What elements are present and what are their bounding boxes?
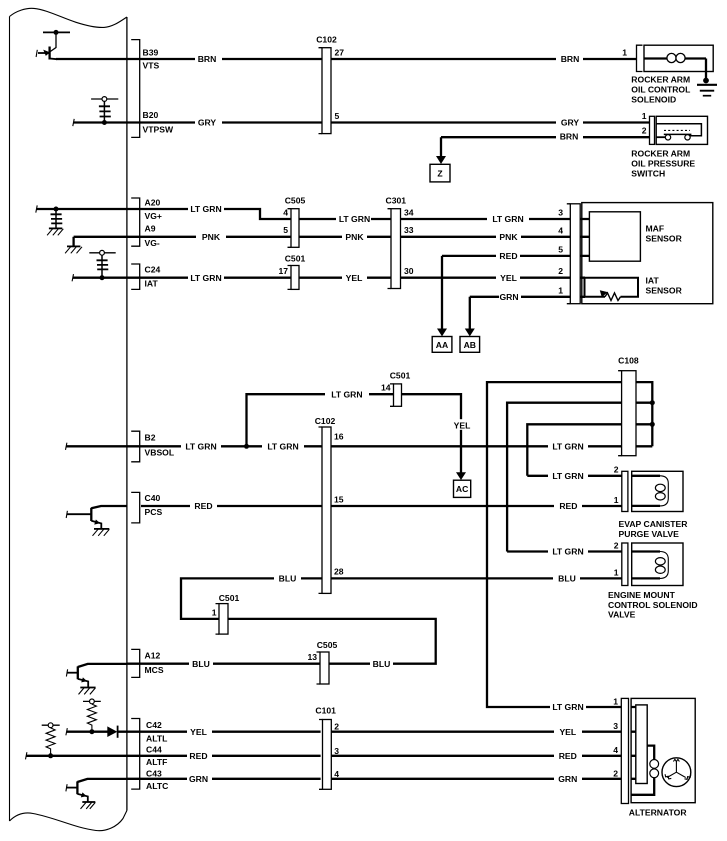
- svg-text:2: 2: [334, 721, 339, 731]
- svg-text:4: 4: [334, 769, 339, 779]
- svg-text:14: 14: [381, 383, 391, 393]
- svg-text:30: 30: [404, 266, 414, 276]
- svg-text:LT GRN: LT GRN: [267, 441, 298, 451]
- svg-text:MCS: MCS: [145, 665, 164, 675]
- svg-text:PURGE VALVE: PURGE VALVE: [619, 529, 680, 539]
- svg-text:RED: RED: [194, 501, 212, 511]
- svg-text:C102: C102: [315, 416, 336, 426]
- svg-text:ALTERNATOR: ALTERNATOR: [629, 807, 688, 817]
- svg-text:VALVE: VALVE: [608, 610, 636, 620]
- svg-text:17: 17: [278, 266, 288, 276]
- svg-text:2: 2: [614, 465, 619, 475]
- svg-text:VTS: VTS: [143, 61, 160, 71]
- svg-text:LT GRN: LT GRN: [190, 273, 221, 283]
- svg-text:OIL PRESSURE: OIL PRESSURE: [631, 159, 695, 169]
- svg-text:33: 33: [404, 225, 414, 235]
- svg-text:SOLENOID: SOLENOID: [631, 95, 676, 105]
- svg-text:SENSOR: SENSOR: [646, 286, 683, 296]
- svg-text:PNK: PNK: [202, 232, 221, 242]
- svg-text:VG+: VG+: [145, 211, 162, 221]
- svg-text:IAT: IAT: [646, 276, 660, 286]
- svg-text:C101: C101: [315, 705, 336, 715]
- svg-text:1: 1: [622, 48, 627, 58]
- svg-text:BRN: BRN: [560, 132, 579, 142]
- svg-text:BLU: BLU: [279, 574, 297, 584]
- svg-text:1: 1: [558, 285, 563, 295]
- svg-text:ALTL: ALTL: [146, 734, 167, 744]
- svg-text:2: 2: [613, 768, 618, 778]
- svg-text:A9: A9: [145, 224, 156, 234]
- svg-text:SWITCH: SWITCH: [631, 169, 665, 179]
- svg-text:AC: AC: [456, 484, 468, 494]
- svg-text:GRY: GRY: [561, 118, 580, 128]
- svg-text:BLU: BLU: [373, 659, 391, 669]
- svg-text:RED: RED: [559, 751, 577, 761]
- svg-text:ROCKER ARM: ROCKER ARM: [631, 75, 690, 85]
- svg-text:LT GRN: LT GRN: [552, 471, 583, 481]
- svg-text:1: 1: [642, 111, 647, 121]
- svg-text:C43: C43: [146, 768, 162, 778]
- svg-text:5: 5: [558, 244, 563, 254]
- svg-text:ENGINE MOUNT: ENGINE MOUNT: [608, 590, 676, 600]
- svg-text:GRN: GRN: [189, 774, 208, 784]
- svg-text:ROCKER ARM: ROCKER ARM: [631, 148, 690, 158]
- svg-text:2: 2: [558, 266, 563, 276]
- svg-text:C501: C501: [390, 371, 411, 381]
- svg-text:C301: C301: [386, 196, 407, 206]
- svg-text:34: 34: [404, 208, 414, 218]
- svg-text:B2: B2: [145, 433, 156, 443]
- svg-text:LT GRN: LT GRN: [552, 547, 583, 557]
- svg-text:C44: C44: [146, 744, 162, 754]
- svg-text:15: 15: [334, 495, 344, 505]
- svg-text:RED: RED: [559, 501, 577, 511]
- svg-text:VTPSW: VTPSW: [143, 125, 174, 135]
- svg-text:C108: C108: [618, 356, 639, 366]
- svg-text:EVAP CANISTER: EVAP CANISTER: [619, 519, 689, 529]
- svg-text:BRN: BRN: [198, 54, 217, 64]
- svg-text:C42: C42: [146, 720, 162, 730]
- svg-text:GRN: GRN: [558, 774, 577, 784]
- svg-text:RED: RED: [499, 251, 517, 261]
- svg-text:4: 4: [283, 208, 288, 218]
- svg-text:B20: B20: [143, 110, 159, 120]
- svg-text:1: 1: [613, 697, 618, 707]
- svg-text:16: 16: [334, 432, 344, 442]
- svg-text:MAF: MAF: [646, 224, 665, 234]
- svg-text:A20: A20: [145, 198, 161, 208]
- svg-text:LT GRN: LT GRN: [552, 441, 583, 451]
- svg-text:BRN: BRN: [561, 54, 580, 64]
- svg-text:3: 3: [558, 208, 563, 218]
- svg-text:ALTF: ALTF: [146, 757, 167, 767]
- svg-text:4: 4: [558, 226, 563, 236]
- svg-text:13: 13: [307, 652, 317, 662]
- svg-text:PNK: PNK: [499, 232, 518, 242]
- svg-text:YEL: YEL: [559, 727, 576, 737]
- svg-text:C505: C505: [317, 640, 338, 650]
- svg-text:OIL CONTROL: OIL CONTROL: [631, 85, 690, 95]
- svg-text:1: 1: [614, 567, 619, 577]
- svg-text:LT GRN: LT GRN: [190, 204, 221, 214]
- svg-text:LT GRN: LT GRN: [185, 441, 216, 451]
- svg-text:1: 1: [212, 608, 217, 618]
- svg-text:C501: C501: [285, 254, 306, 264]
- svg-text:CONTROL SOLENOID: CONTROL SOLENOID: [608, 600, 698, 610]
- svg-text:3: 3: [613, 721, 618, 731]
- svg-text:1: 1: [614, 495, 619, 505]
- svg-text:YEL: YEL: [346, 273, 363, 283]
- svg-text:YEL: YEL: [500, 273, 517, 283]
- svg-text:28: 28: [334, 567, 344, 577]
- svg-text:27: 27: [335, 48, 345, 58]
- svg-text:C102: C102: [316, 35, 337, 45]
- svg-text:LT GRN: LT GRN: [492, 214, 523, 224]
- svg-text:LT GRN: LT GRN: [552, 702, 583, 712]
- svg-text:2: 2: [642, 126, 647, 136]
- svg-text:B39: B39: [143, 48, 159, 58]
- svg-text:PNK: PNK: [345, 232, 364, 242]
- svg-text:C24: C24: [145, 265, 161, 275]
- svg-text:BLU: BLU: [192, 659, 210, 669]
- svg-text:YEL: YEL: [454, 421, 471, 431]
- svg-text:GRY: GRY: [198, 118, 217, 128]
- svg-text:YEL: YEL: [190, 727, 207, 737]
- svg-text:ALTC: ALTC: [146, 781, 168, 791]
- svg-text:5: 5: [283, 225, 288, 235]
- svg-text:A12: A12: [145, 651, 161, 661]
- svg-text:LT GRN: LT GRN: [331, 389, 362, 399]
- svg-text:IAT: IAT: [145, 279, 159, 289]
- svg-text:BLU: BLU: [558, 574, 576, 584]
- svg-text:PCS: PCS: [145, 507, 163, 517]
- svg-text:LT GRN: LT GRN: [339, 214, 370, 224]
- svg-text:AA: AA: [436, 340, 448, 350]
- svg-text:C501: C501: [219, 593, 240, 603]
- svg-text:SENSOR: SENSOR: [646, 234, 683, 244]
- svg-text:5: 5: [335, 111, 340, 121]
- svg-text:VG-: VG-: [145, 238, 160, 248]
- svg-text:4: 4: [613, 745, 618, 755]
- svg-text:AB: AB: [464, 340, 476, 350]
- svg-text:2: 2: [614, 540, 619, 550]
- svg-text:RED: RED: [189, 751, 207, 761]
- svg-text:Z: Z: [437, 168, 442, 178]
- svg-text:C40: C40: [145, 493, 161, 503]
- svg-text:VBSOL: VBSOL: [145, 448, 175, 458]
- svg-text:GRN: GRN: [499, 292, 518, 302]
- svg-text:3: 3: [334, 746, 339, 756]
- svg-text:C505: C505: [285, 196, 306, 206]
